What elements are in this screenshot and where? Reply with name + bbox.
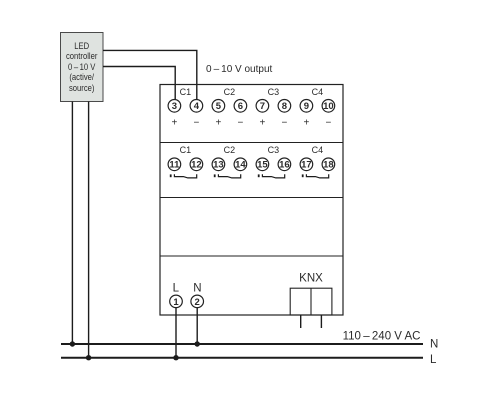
svg-text:4: 4	[194, 101, 200, 112]
svg-text:−: −	[325, 117, 331, 128]
svg-text:N: N	[193, 282, 201, 294]
svg-text:+: +	[259, 117, 265, 128]
svg-text:13: 13	[213, 160, 224, 171]
svg-text:11: 11	[169, 160, 180, 171]
svg-text:5: 5	[216, 101, 222, 112]
svg-text:−: −	[281, 117, 287, 128]
svg-text:7: 7	[260, 101, 265, 112]
svg-text:C2: C2	[224, 145, 236, 155]
terminal 2	[191, 295, 204, 308]
svg-text:L: L	[173, 282, 180, 294]
KNX bus terminal block	[290, 288, 332, 315]
junction LED-N wire / N bus	[70, 341, 75, 346]
junction terminal1 wire / L bus	[173, 355, 178, 360]
svg-text:LED: LED	[74, 40, 89, 51]
LED controller box	[61, 33, 104, 102]
svg-text:14: 14	[235, 160, 246, 171]
KNX bus pin -	[320, 315, 322, 328]
polarity labels +/- for outputs	[171, 117, 331, 128]
svg-text:C1: C1	[180, 145, 192, 155]
terminal 11	[168, 158, 181, 171]
svg-text:KNX: KNX	[299, 273, 323, 285]
wire LED controller to N bus	[71, 102, 73, 345]
svg-text:controller: controller	[66, 51, 98, 62]
device outline	[160, 85, 343, 316]
KNX bus pin +	[300, 315, 302, 328]
section divider 3	[160, 255, 343, 257]
relay contact C4	[303, 174, 329, 178]
svg-text:C4: C4	[312, 87, 324, 97]
relay contact C1	[171, 174, 197, 178]
section divider 2	[160, 197, 343, 199]
svg-text:C2: C2	[224, 87, 236, 97]
svg-text:9: 9	[304, 101, 309, 112]
wire LED controller to terminal 3	[103, 67, 175, 101]
svg-text:15: 15	[257, 160, 268, 171]
svg-text:18: 18	[323, 160, 334, 171]
svg-text:N: N	[430, 338, 438, 350]
junction LED-L wire / L bus	[86, 355, 91, 360]
svg-text:0 – 10 V output: 0 – 10 V output	[206, 64, 273, 75]
svg-text:110 – 240 V AC: 110 – 240 V AC	[343, 330, 421, 342]
wire LED controller to terminal 4	[103, 50, 197, 100]
svg-text:C3: C3	[268, 87, 280, 97]
terminal 18	[322, 158, 335, 171]
terminal 5	[212, 100, 225, 113]
svg-text:8: 8	[282, 101, 287, 112]
terminal 16	[278, 158, 291, 171]
svg-text:−: −	[237, 117, 243, 128]
terminal 1	[170, 295, 183, 308]
svg-text:17: 17	[301, 160, 312, 171]
svg-text:L: L	[430, 354, 437, 366]
svg-text:10: 10	[323, 101, 334, 112]
svg-text:C4: C4	[312, 145, 324, 155]
terminal 13	[212, 158, 225, 171]
svg-text:3: 3	[172, 101, 177, 112]
svg-text:C1: C1	[180, 87, 192, 97]
svg-text:C3: C3	[268, 145, 280, 155]
svg-text:+: +	[171, 117, 177, 128]
L bus line	[61, 357, 423, 359]
wire terminal 1 to L bus	[175, 307, 177, 358]
terminal 14	[234, 158, 247, 171]
terminal 15	[256, 158, 269, 171]
svg-text:1: 1	[173, 297, 179, 308]
svg-text:16: 16	[279, 160, 290, 171]
svg-text:6: 6	[238, 101, 243, 112]
junction terminal2 wire / N bus	[195, 341, 200, 346]
svg-text:(active/: (active/	[69, 72, 94, 83]
terminal 7	[256, 100, 269, 113]
svg-text:2: 2	[195, 297, 200, 308]
terminal 8	[278, 100, 291, 113]
svg-text:−: −	[193, 117, 199, 128]
wire LED controller to L bus	[88, 102, 90, 358]
svg-text:+: +	[303, 117, 309, 128]
terminal 4	[190, 100, 203, 113]
terminal 9	[300, 100, 313, 113]
terminal 17	[300, 158, 313, 171]
svg-text:+: +	[215, 117, 221, 128]
terminal 12	[190, 158, 203, 171]
section divider 1	[160, 142, 343, 144]
svg-text:source): source)	[69, 82, 95, 93]
relay contact C2	[215, 174, 241, 178]
N bus line	[61, 343, 423, 345]
terminal 3	[168, 100, 181, 113]
svg-text:12: 12	[191, 160, 202, 171]
terminal 6	[234, 100, 247, 113]
wire terminal 2 to N bus	[196, 307, 198, 344]
svg-text:0 – 10 V: 0 – 10 V	[68, 61, 96, 72]
relay contact C3	[259, 174, 285, 178]
terminal 10	[322, 100, 335, 113]
